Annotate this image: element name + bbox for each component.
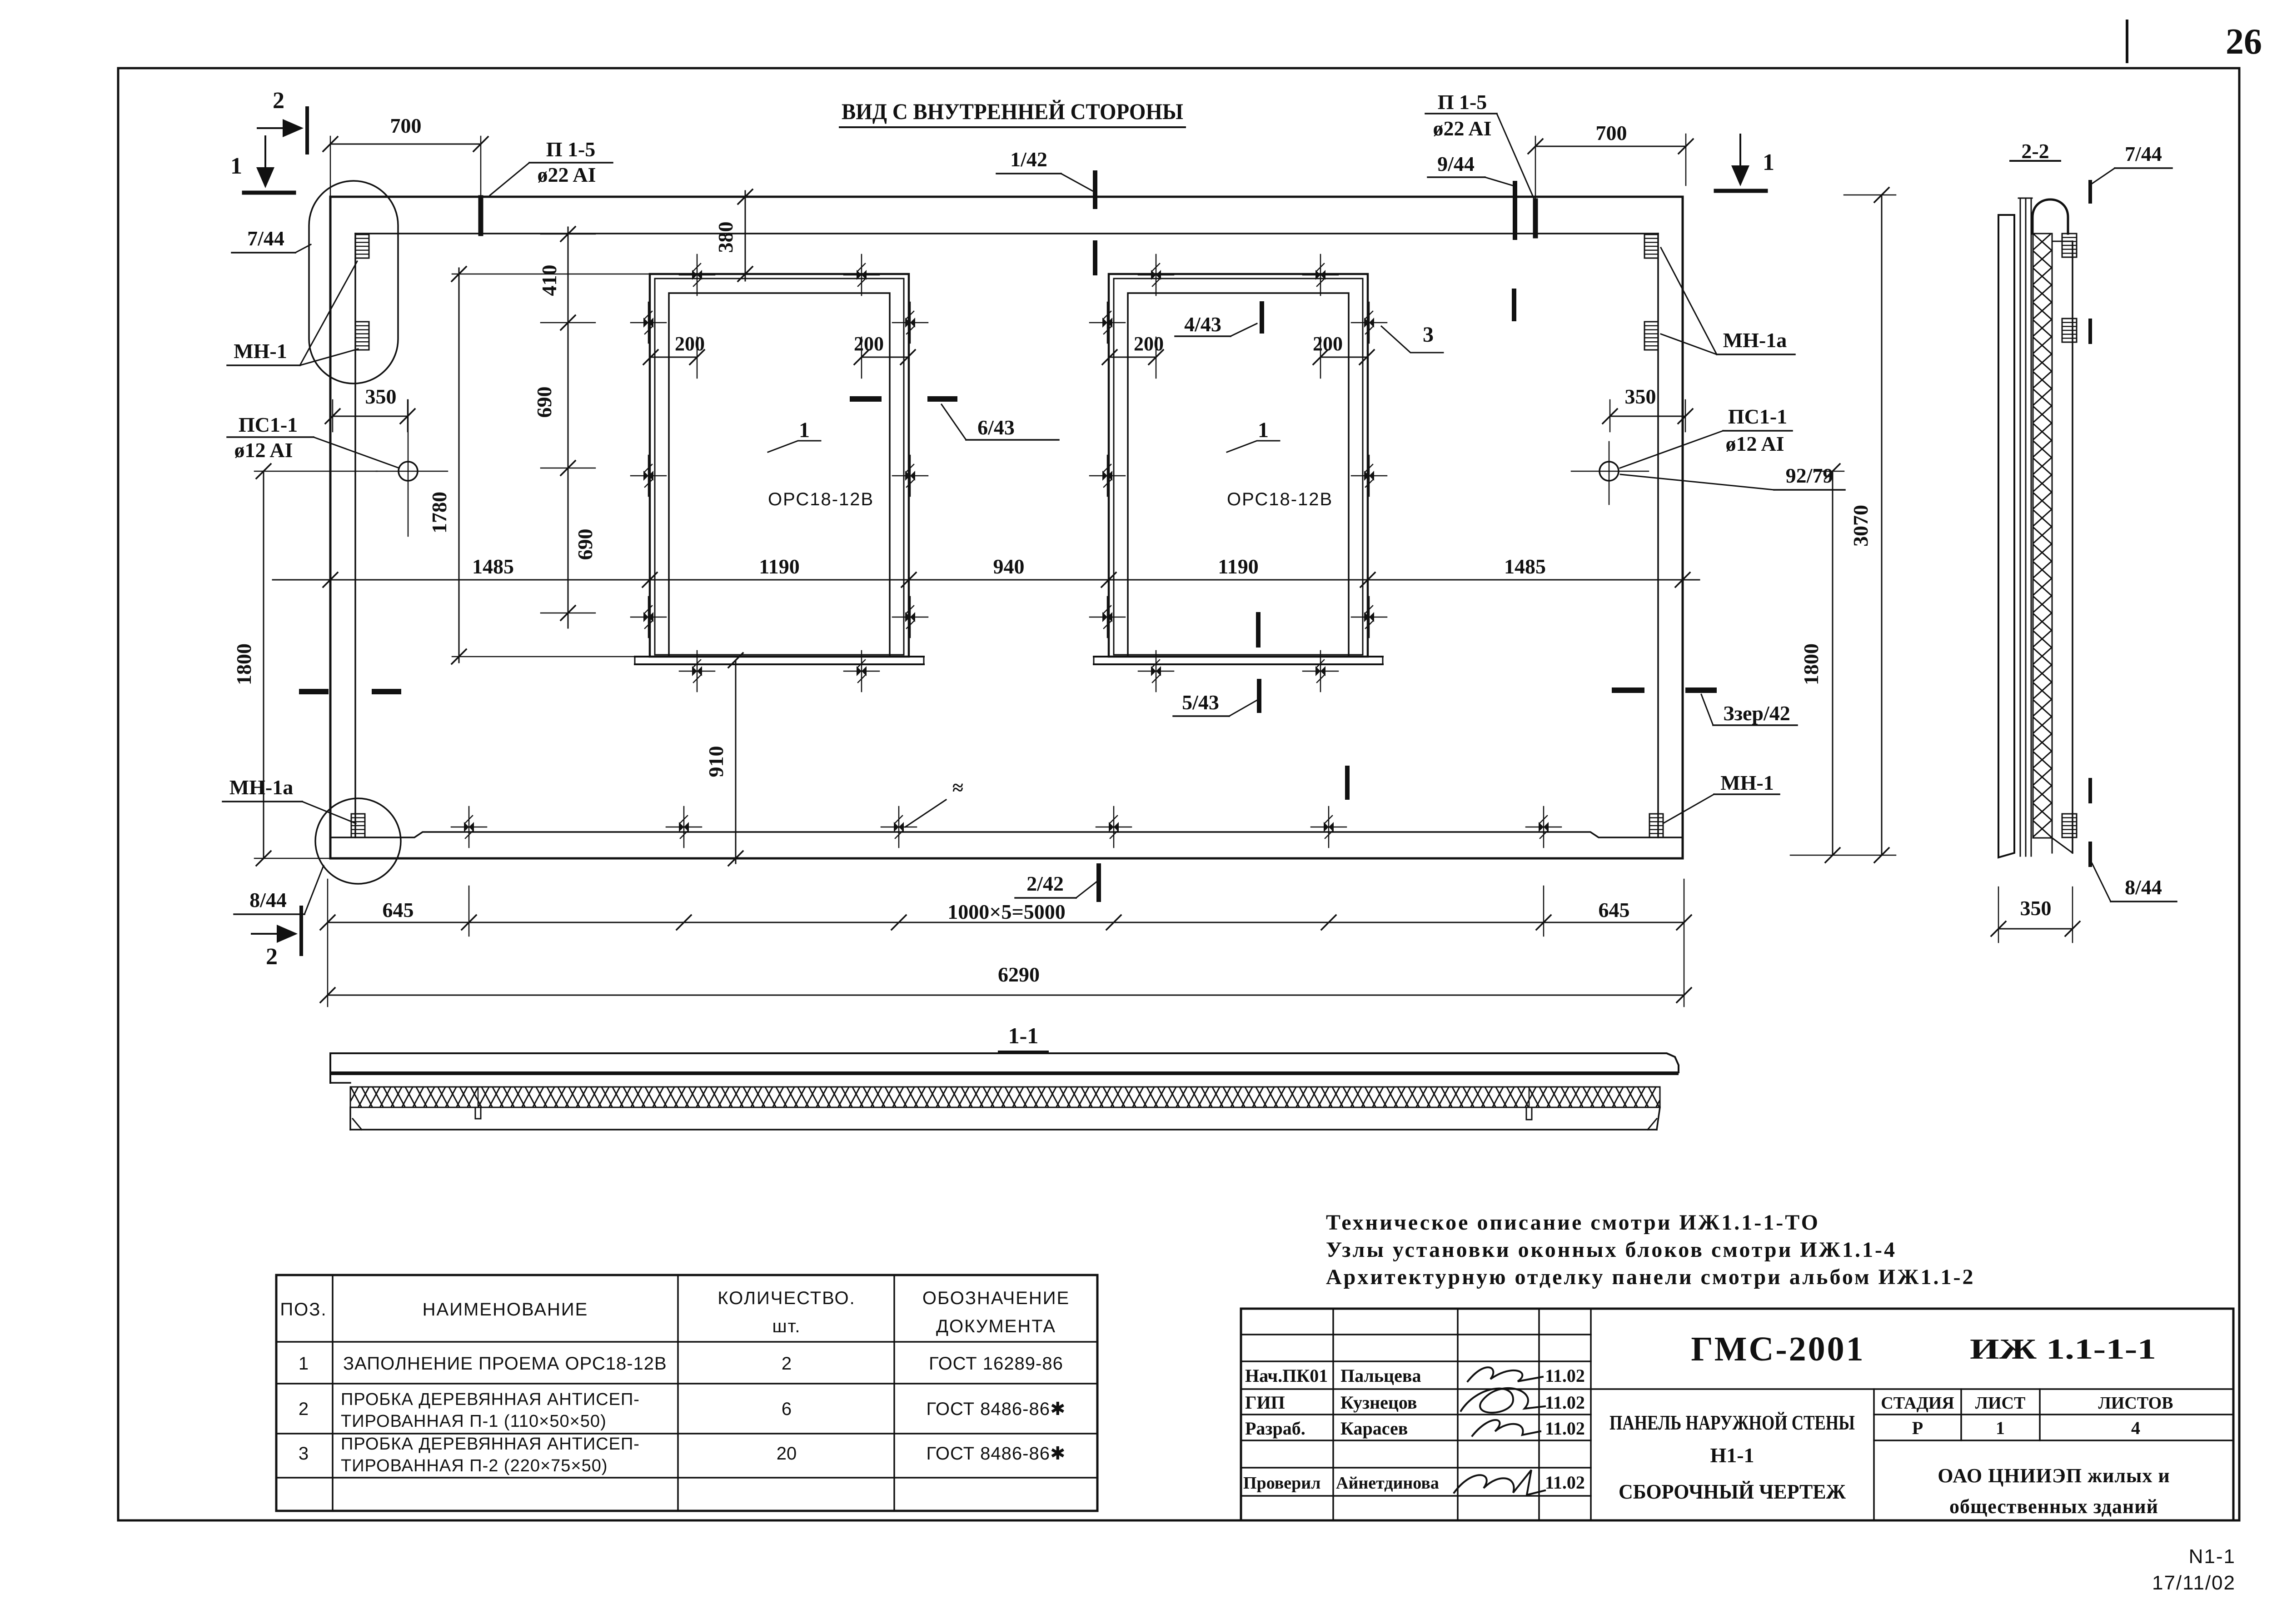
svg-text:Айнетдинова: Айнетдинова xyxy=(1336,1474,1439,1493)
svg-text:Узлы установки оконных блоков: Узлы установки оконных блоков смотри ИЖ1… xyxy=(1326,1238,1897,1262)
svg-text:ГОСТ 8486-86✱: ГОСТ 8486-86✱ xyxy=(927,1444,1066,1464)
svg-text:шт.: шт. xyxy=(772,1316,801,1336)
svg-text:≈: ≈ xyxy=(952,777,963,799)
svg-text:1485: 1485 xyxy=(472,555,514,578)
window W1 bottom plugs xyxy=(692,666,702,676)
svg-text:200: 200 xyxy=(1134,333,1164,355)
svg-text:940: 940 xyxy=(993,555,1025,578)
svg-text:8/44: 8/44 xyxy=(249,888,287,912)
svg-text:ПС1-1: ПС1-1 xyxy=(1728,405,1787,428)
panel inner left line xyxy=(354,234,356,837)
window W2 bottom plugs xyxy=(1151,666,1161,676)
window W2 dim 200 left xyxy=(1110,357,1156,358)
section 2-2 MH block mid xyxy=(2062,319,2077,342)
svg-text:ЛИСТОВ: ЛИСТОВ xyxy=(2098,1394,2173,1413)
svg-text:Разраб.: Разраб. xyxy=(1245,1418,1305,1439)
window W1 dim 200 right xyxy=(862,357,908,358)
dim 6290 xyxy=(328,995,1684,996)
tick 2/42 xyxy=(1096,866,1101,900)
svg-text:1: 1 xyxy=(299,1354,309,1374)
anchor P1-5 bar left xyxy=(478,198,483,234)
svg-text:1: 1 xyxy=(1763,149,1774,175)
svg-text:20: 20 xyxy=(777,1444,797,1464)
panel outer outline xyxy=(330,197,1683,858)
dim 1800 left xyxy=(263,471,264,858)
svg-text:общественных зданий: общественных зданий xyxy=(1949,1495,2158,1518)
svg-text:1780: 1780 xyxy=(428,492,451,533)
svg-text:ПАНЕЛЬ НАРУЖНОЙ СТЕНЫ: ПАНЕЛЬ НАРУЖНОЙ СТЕНЫ xyxy=(1609,1411,1855,1434)
svg-text:ø22 AI: ø22 AI xyxy=(537,163,596,186)
section 1-1 top slab xyxy=(330,1053,1679,1083)
svg-text:2: 2 xyxy=(266,944,278,970)
signature 1 xyxy=(1468,1367,1543,1381)
svg-text:690: 690 xyxy=(533,387,556,418)
embedded part MH-1 bottom-right block xyxy=(1649,814,1663,837)
svg-text:645: 645 xyxy=(383,898,414,922)
section 2-2 outer face xyxy=(2072,241,2073,853)
svg-text:200: 200 xyxy=(854,333,884,355)
svg-text:350: 350 xyxy=(365,385,397,408)
svg-text:ЛИСТ: ЛИСТ xyxy=(1975,1394,2026,1413)
window W2 top plugs xyxy=(1151,270,1161,280)
tick 4/43 xyxy=(1260,304,1264,331)
window W1 inner opening xyxy=(669,293,890,657)
dim 350 left xyxy=(333,416,408,417)
window W1 upper side plugs xyxy=(643,318,653,328)
tick extra bottom xyxy=(1345,768,1350,797)
svg-text:ИЖ 1.1-1-1: ИЖ 1.1-1-1 xyxy=(1970,1333,2156,1365)
svg-text:ø12 AI: ø12 AI xyxy=(234,438,293,462)
svg-text:1: 1 xyxy=(230,153,242,179)
panel inner top line xyxy=(355,233,1658,234)
svg-text:НАИМЕНОВАНИЕ: НАИМЕНОВАНИЕ xyxy=(423,1300,588,1320)
weld dashes 6/43 xyxy=(852,396,879,402)
svg-text:1190: 1190 xyxy=(759,555,799,578)
svg-text:1800: 1800 xyxy=(1799,643,1823,685)
svg-text:2/42: 2/42 xyxy=(1026,872,1064,895)
svg-text:4/43: 4/43 xyxy=(1184,313,1221,336)
panel inner bottom line xyxy=(330,832,1683,837)
section 2-2 insulation xyxy=(2033,234,2052,838)
svg-text:6/43: 6/43 xyxy=(977,416,1015,439)
dim 700 left xyxy=(330,144,481,145)
svg-text:6290: 6290 xyxy=(998,963,1040,986)
section 2-2 lifting loop xyxy=(2033,199,2068,234)
svg-text:ПС1-1: ПС1-1 xyxy=(239,413,298,436)
embedded part MH-1 block A xyxy=(355,234,369,258)
panel inner right line xyxy=(1657,234,1659,837)
detail oval top-left xyxy=(309,181,398,384)
svg-text:92/79: 92/79 xyxy=(1786,464,1834,487)
section 1-1 bottom band xyxy=(349,1107,351,1130)
svg-text:200: 200 xyxy=(675,333,705,355)
svg-text:Кузнецов: Кузнецов xyxy=(1340,1392,1417,1413)
svg-text:7/44: 7/44 xyxy=(2125,142,2162,165)
section 2-2 MH block top xyxy=(2062,234,2077,257)
tick above 5/43 xyxy=(1256,614,1261,645)
svg-text:17/11/02: 17/11/02 xyxy=(2152,1572,2236,1594)
window W1 sill xyxy=(635,656,924,658)
anchor P1-5 bar right xyxy=(1533,201,1538,236)
svg-text:9/44: 9/44 xyxy=(1437,152,1475,175)
svg-text:СБОРОЧНЫЙ ЧЕРТЕЖ: СБОРОЧНЫЙ ЧЕРТЕЖ xyxy=(1619,1480,1846,1503)
svg-text:645: 645 xyxy=(1599,898,1630,922)
svg-text:410: 410 xyxy=(538,265,561,296)
svg-text:ГИП: ГИП xyxy=(1245,1392,1285,1413)
section 1-1 pin A xyxy=(475,1107,481,1119)
svg-text:N1-1: N1-1 xyxy=(2189,1545,2236,1568)
svg-text:СТАДИЯ: СТАДИЯ xyxy=(1881,1394,1954,1413)
svg-text:1: 1 xyxy=(799,418,810,442)
svg-text:ГОСТ 8486-86✱: ГОСТ 8486-86✱ xyxy=(927,1399,1066,1419)
anchor PS1-1 right xyxy=(1599,462,1619,481)
dim 910 xyxy=(735,660,737,863)
svg-text:КОЛИЧЕСТВО.: КОЛИЧЕСТВО. xyxy=(717,1288,855,1308)
window W2 inner opening xyxy=(1128,293,1349,657)
section 2-2 MH block bottom xyxy=(2062,814,2077,837)
dim 1800 right xyxy=(1832,471,1834,855)
section 2-2 inner layers xyxy=(2020,198,2021,856)
svg-text:Пальцева: Пальцева xyxy=(1340,1365,1421,1386)
page number tick xyxy=(2126,21,2128,62)
svg-text:1: 1 xyxy=(1996,1418,2005,1438)
svg-text:ОРС18-12В: ОРС18-12В xyxy=(768,489,874,509)
signature 3 xyxy=(1472,1420,1540,1436)
dim 700 right xyxy=(1535,146,1686,147)
window W2 lower side plugs xyxy=(1102,612,1112,622)
svg-text:11.02: 11.02 xyxy=(1545,1418,1585,1439)
svg-text:11.02: 11.02 xyxy=(1545,1392,1585,1413)
svg-text:1: 1 xyxy=(1258,418,1269,442)
window W2 upper side plugs xyxy=(1102,318,1112,328)
svg-text:ОБОЗНАЧЕНИЕ: ОБОЗНАЧЕНИЕ xyxy=(922,1288,1070,1308)
svg-text:7/44: 7/44 xyxy=(247,227,284,250)
section 2-2 tick mid xyxy=(2088,320,2092,342)
tick 1/42 xyxy=(1093,173,1097,207)
window W2 sill xyxy=(1094,656,1383,658)
weld dashes 3/42 xyxy=(302,689,326,694)
svg-text:Нач.ПК01: Нач.ПК01 xyxy=(1245,1365,1328,1386)
svg-text:4: 4 xyxy=(2131,1418,2140,1438)
window W2 middle side plugs xyxy=(1102,471,1112,481)
svg-text:6: 6 xyxy=(782,1399,792,1419)
signature 2 xyxy=(1461,1388,1545,1413)
svg-text:П 1-5: П 1-5 xyxy=(546,138,596,161)
weld dashes 3zer/42 xyxy=(1614,687,1642,693)
svg-text:ПОЗ.: ПОЗ. xyxy=(280,1300,327,1320)
embedded part MH-1a block B xyxy=(1644,322,1658,350)
svg-text:ЗАПОЛНЕНИЕ ПРОЕМА ОРС18-12В: ЗАПОЛНЕНИЕ ПРОЕМА ОРС18-12В xyxy=(343,1354,667,1374)
svg-text:ОРС18-12В: ОРС18-12В xyxy=(1227,489,1333,509)
svg-text:1000×5=5000: 1000×5=5000 xyxy=(947,900,1065,923)
svg-text:2: 2 xyxy=(273,88,284,114)
svg-text:3: 3 xyxy=(1423,323,1434,347)
svg-text:2: 2 xyxy=(299,1399,309,1419)
svg-text:910: 910 xyxy=(704,746,727,777)
svg-text:ПРОБКА ДЕРЕВЯННАЯ АНТИСЕП-: ПРОБКА ДЕРЕВЯННАЯ АНТИСЕП- xyxy=(341,1435,640,1454)
svg-text:Техническое описание смотри ИЖ: Техническое описание смотри ИЖ1.1-1-ТО xyxy=(1326,1211,1820,1235)
svg-text:2: 2 xyxy=(782,1354,792,1374)
dim 3070 xyxy=(1881,195,1883,855)
svg-text:Карасев: Карасев xyxy=(1340,1418,1408,1439)
window W2 middle frame xyxy=(1114,279,1363,655)
embedded part MH-1a block A xyxy=(1644,234,1658,258)
svg-text:ВИД С ВНУТРЕННЕЙ СТОРОНЫ: ВИД С ВНУТРЕННЕЙ СТОРОНЫ xyxy=(842,99,1183,124)
embedded part MH-1a bottom-left block xyxy=(351,814,365,837)
svg-text:5/43: 5/43 xyxy=(1182,691,1219,714)
svg-text:ОАО ЦНИИЭП жилых и: ОАО ЦНИИЭП жилых и xyxy=(1938,1465,2170,1487)
svg-text:350: 350 xyxy=(1625,385,1656,408)
svg-text:ТИРОВАННАЯ П-2 (220×75×50): ТИРОВАННАЯ П-2 (220×75×50) xyxy=(341,1456,608,1475)
svg-text:26: 26 xyxy=(2226,22,2262,62)
window W1 dim 200 left xyxy=(651,357,697,358)
svg-text:200: 200 xyxy=(1313,333,1343,355)
svg-text:380: 380 xyxy=(714,222,737,253)
svg-text:ГОСТ 16289-86: ГОСТ 16289-86 xyxy=(929,1354,1063,1374)
svg-text:700: 700 xyxy=(390,114,422,137)
window W1 middle side plugs xyxy=(643,471,653,481)
svg-text:Р: Р xyxy=(1912,1418,1923,1438)
svg-text:3: 3 xyxy=(299,1444,309,1464)
svg-text:Н1-1: Н1-1 xyxy=(1710,1444,1754,1467)
window W1 top plugs xyxy=(692,270,702,280)
embedded part MH-1 block B xyxy=(355,322,369,350)
svg-text:700: 700 xyxy=(1596,121,1627,144)
bottom plugs xyxy=(464,822,474,832)
section 2-2 left board xyxy=(1998,215,2014,857)
dim chain 645/1000x5=5000/645 xyxy=(328,922,1684,923)
svg-text:ПРОБКА ДЕРЕВЯННАЯ АНТИСЕП-: ПРОБКА ДЕРЕВЯННАЯ АНТИСЕП- xyxy=(341,1390,640,1409)
svg-text:Архитектурную отделку панели с: Архитектурную отделку панели смотри альб… xyxy=(1326,1265,1975,1289)
svg-text:1-1: 1-1 xyxy=(1008,1023,1039,1048)
section 2-2 tick low xyxy=(2088,780,2092,802)
window W2 outer frame xyxy=(1109,274,1368,657)
detail circle bottom-left xyxy=(315,798,401,884)
window W2 dim 200 right xyxy=(1320,357,1367,358)
svg-text:11.02: 11.02 xyxy=(1545,1365,1585,1386)
svg-text:11.02: 11.02 xyxy=(1545,1472,1585,1493)
section 1-1 pin B xyxy=(1526,1107,1532,1120)
signature 4 xyxy=(1454,1470,1545,1495)
tick 7/44 right xyxy=(2088,182,2092,202)
svg-text:1190: 1190 xyxy=(1218,555,1258,578)
tick below 9/44 xyxy=(1512,291,1516,319)
dim chain 1485/1190/940/1190/1485 xyxy=(273,579,1699,581)
section 2-2 tick bottom xyxy=(2088,843,2092,865)
svg-text:ø22 AI: ø22 AI xyxy=(1433,117,1491,140)
section 1-1 insulation band xyxy=(350,1087,1660,1107)
svg-text:МН-1а: МН-1а xyxy=(1723,329,1787,352)
svg-text:ГМС-2001: ГМС-2001 xyxy=(1691,1330,1865,1368)
svg-text:П 1-5: П 1-5 xyxy=(1438,90,1487,114)
svg-text:1485: 1485 xyxy=(1504,555,1546,578)
svg-text:МН-1: МН-1 xyxy=(1720,771,1774,794)
dim 350 right xyxy=(1610,416,1685,417)
svg-text:1/42: 1/42 xyxy=(1010,148,1047,171)
tick 5/43 xyxy=(1257,681,1261,711)
dim chain 410/690/690 xyxy=(568,227,569,628)
anchor PS1-1 left xyxy=(399,462,418,481)
svg-text:МН-1а: МН-1а xyxy=(229,776,294,799)
window W1 middle frame xyxy=(655,279,904,655)
tick 9/44 top xyxy=(1513,183,1517,238)
window W1 lower side plugs xyxy=(643,612,653,622)
svg-text:ø12 AI: ø12 AI xyxy=(1725,432,1784,455)
svg-text:МН-1: МН-1 xyxy=(234,339,287,363)
svg-text:3070: 3070 xyxy=(1849,505,1872,547)
dim 380 xyxy=(745,191,746,281)
svg-text:Проверил: Проверил xyxy=(1243,1474,1320,1493)
svg-text:8/44: 8/44 xyxy=(2125,876,2162,899)
parts table grid xyxy=(276,1275,1097,1511)
svg-text:1800: 1800 xyxy=(232,643,255,685)
svg-text:350: 350 xyxy=(2020,897,2052,920)
svg-text:690: 690 xyxy=(573,529,597,560)
window W1 outer frame xyxy=(650,274,909,657)
title block grid xyxy=(1241,1309,2233,1520)
tick below 1/42 xyxy=(1093,243,1097,273)
svg-text:ДОКУМЕНТА: ДОКУМЕНТА xyxy=(936,1316,1056,1336)
svg-text:ТИРОВАННАЯ П-1 (110×50×50): ТИРОВАННАЯ П-1 (110×50×50) xyxy=(341,1412,607,1431)
svg-text:Ззер/42: Ззер/42 xyxy=(1723,702,1790,725)
dim 350 section xyxy=(1998,928,2073,930)
dim 1780 xyxy=(458,268,460,663)
svg-text:2-2: 2-2 xyxy=(2021,139,2049,163)
